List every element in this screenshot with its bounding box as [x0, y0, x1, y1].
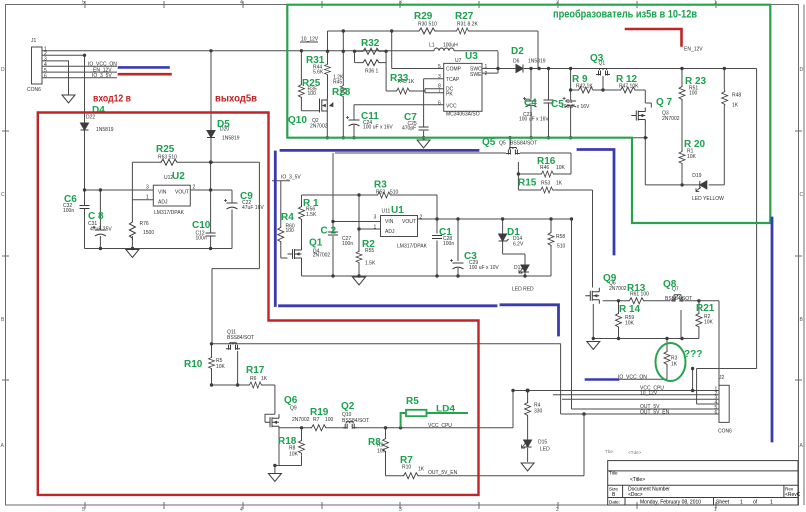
svg-text:PK: PK	[446, 92, 453, 98]
svg-text:2N7002: 2N7002	[313, 253, 331, 259]
svg-text:SWE: SWE	[470, 72, 482, 78]
svg-text:R25: R25	[156, 144, 175, 155]
svg-text:Q6: Q6	[284, 395, 298, 406]
svg-text:U7: U7	[455, 58, 462, 64]
svg-text:2N7002: 2N7002	[609, 286, 627, 292]
svg-text:1N5819: 1N5819	[96, 127, 114, 133]
svg-text:R17: R17	[246, 365, 265, 376]
svg-text:100uF x 16V: 100uF x 16V	[561, 104, 590, 110]
svg-text:1: 1	[770, 500, 773, 506]
svg-text:1: 1	[146, 195, 149, 201]
svg-text:R2: R2	[362, 239, 375, 250]
svg-text:J2: J2	[719, 375, 725, 381]
svg-text:R21: R21	[696, 303, 715, 314]
svg-text:100 uF x 16V: 100 uF x 16V	[363, 125, 393, 131]
svg-text:VOUT: VOUT	[175, 190, 189, 196]
svg-text:Q8: Q8	[663, 279, 677, 290]
svg-text:VIN: VIN	[158, 190, 167, 196]
svg-text:MC34063A/SO: MC34063A/SO	[446, 112, 480, 118]
svg-text:R5: R5	[406, 396, 419, 407]
svg-text:LM317/DPAK: LM317/DPAK	[154, 210, 185, 216]
svg-text:3: 3	[438, 74, 441, 80]
svg-text:1N5819: 1N5819	[528, 59, 546, 65]
svg-text:R36 1: R36 1	[365, 69, 379, 75]
svg-text:R16: R16	[537, 156, 556, 167]
svg-text:D15: D15	[538, 440, 547, 446]
svg-text:ADJ: ADJ	[385, 229, 395, 235]
svg-text:10K: 10K	[704, 320, 714, 326]
svg-text:R 23: R 23	[685, 76, 707, 87]
svg-text:10_12V: 10_12V	[640, 390, 658, 396]
svg-text:2: 2	[556, 507, 559, 512]
svg-text:Q10: Q10	[288, 115, 307, 126]
svg-text:Q1: Q1	[309, 238, 323, 249]
svg-text:Q 7: Q 7	[656, 97, 673, 108]
svg-text:J1: J1	[31, 38, 37, 44]
svg-text:5: 5	[438, 64, 441, 70]
svg-text:1: 1	[485, 64, 488, 70]
svg-text:LED YELLOW: LED YELLOW	[692, 196, 724, 202]
svg-text:C6: C6	[64, 194, 77, 205]
svg-text:470pF: 470pF	[402, 126, 416, 132]
svg-text:IO_3_5V: IO_3_5V	[92, 73, 112, 79]
svg-text:LD4: LD4	[436, 404, 455, 414]
svg-text:Q9: Q9	[603, 273, 617, 284]
svg-text:IO_3_5V: IO_3_5V	[281, 175, 301, 181]
svg-text:2N7002: 2N7002	[662, 116, 680, 122]
svg-text:Sheet: Sheet	[716, 500, 730, 506]
svg-text:COMP: COMP	[446, 67, 462, 73]
svg-text:2N7002: 2N7002	[310, 124, 328, 130]
svg-text:100uH: 100uH	[443, 43, 458, 49]
svg-text:C1: C1	[439, 227, 452, 238]
svg-text:R19: R19	[310, 407, 329, 418]
svg-text:R18: R18	[278, 436, 297, 447]
svg-text:R48: R48	[732, 93, 741, 99]
svg-text:Q2: Q2	[341, 401, 355, 412]
svg-text:D: D	[800, 67, 804, 73]
svg-text:C: C	[1, 192, 5, 198]
svg-text:5: 5	[82, 507, 85, 512]
svg-text:1.5K: 1.5K	[306, 212, 317, 218]
svg-text:C7: C7	[404, 112, 417, 123]
svg-text:10K: 10K	[556, 165, 566, 171]
svg-text:VIN: VIN	[385, 219, 394, 225]
svg-text:D6: D6	[513, 59, 520, 65]
svg-text:R 9: R 9	[572, 74, 588, 85]
svg-text:выход5в: выход5в	[215, 93, 257, 105]
svg-text:2: 2	[485, 71, 488, 77]
svg-text:6: 6	[44, 74, 47, 80]
svg-text:10_12V: 10_12V	[301, 37, 319, 43]
svg-text:R28: R28	[332, 87, 351, 98]
svg-text:R58: R58	[556, 234, 565, 240]
svg-text:R 12: R 12	[616, 74, 638, 85]
svg-text:вход12 в: вход12 в	[93, 93, 131, 105]
svg-text:1K: 1K	[261, 376, 268, 382]
svg-text:Size: Size	[609, 487, 618, 492]
svg-text:R5: R5	[216, 358, 223, 364]
svg-text:1K: 1K	[418, 467, 425, 473]
svg-text:5: 5	[82, 0, 85, 6]
svg-text:OUT_5V_EN: OUT_5V_EN	[428, 470, 458, 476]
svg-text:R33: R33	[390, 73, 409, 84]
svg-text:Monday, February 08, 2010: Monday, February 08, 2010	[640, 500, 701, 506]
svg-text:C 8: C 8	[88, 211, 104, 222]
svg-text:R76: R76	[140, 221, 149, 227]
svg-text:C9: C9	[240, 191, 253, 202]
svg-text:10K: 10K	[625, 321, 635, 327]
svg-text:10K: 10K	[377, 449, 387, 455]
svg-text:IO_VCC_ON: IO_VCC_ON	[618, 374, 647, 380]
svg-text:Q3: Q3	[590, 53, 604, 64]
svg-text:R30 510: R30 510	[418, 22, 437, 28]
svg-text:U11: U11	[382, 209, 391, 215]
svg-text:R13: R13	[627, 283, 646, 294]
svg-text:4: 4	[240, 0, 243, 6]
svg-text:LM317/DPAK: LM317/DPAK	[397, 244, 428, 250]
svg-text:6.2V: 6.2V	[513, 242, 524, 248]
svg-text:1K: 1K	[556, 181, 563, 187]
svg-text:100: 100	[308, 91, 317, 97]
svg-text:47uF 25V: 47uF 25V	[90, 227, 112, 233]
svg-text:R 1: R 1	[303, 198, 319, 209]
svg-text:CON6: CON6	[27, 87, 41, 93]
svg-text:TCAP: TCAP	[446, 77, 460, 83]
svg-text:преобразователь из5в в 10-12в: преобразователь из5в в 10-12в	[553, 9, 697, 21]
svg-text:1K: 1K	[671, 362, 678, 368]
svg-text:4: 4	[240, 507, 243, 512]
svg-text:<Title>: <Title>	[630, 477, 645, 483]
svg-text:OUT_5V_EN: OUT_5V_EN	[640, 409, 670, 415]
svg-text:L1: L1	[429, 43, 435, 49]
svg-text:510: 510	[390, 189, 399, 195]
svg-text:47uF 16V: 47uF 16V	[242, 205, 264, 211]
svg-text:100n: 100n	[63, 208, 74, 214]
svg-text:10K: 10K	[289, 452, 299, 458]
svg-text:R29: R29	[414, 11, 433, 22]
svg-text:R45: R45	[333, 80, 342, 86]
svg-text:C: C	[800, 192, 804, 198]
svg-text:of: of	[753, 500, 758, 506]
svg-text:Title: Title	[609, 471, 618, 476]
svg-text:R10: R10	[184, 359, 203, 370]
svg-text:<RevC: <RevC	[785, 492, 801, 498]
svg-text:3: 3	[374, 214, 377, 220]
svg-text:C10: C10	[192, 220, 211, 231]
svg-text:R 14: R 14	[619, 304, 641, 315]
svg-text:Tbe: Tbe	[605, 449, 613, 454]
svg-text:R31 8.2K: R31 8.2K	[457, 22, 479, 28]
svg-text:100: 100	[689, 91, 698, 97]
svg-text:1: 1	[740, 500, 743, 506]
svg-text:R25: R25	[302, 78, 321, 89]
svg-text:R53: R53	[541, 181, 550, 187]
svg-text:C4: C4	[524, 98, 537, 109]
svg-text:BSS84/SOT: BSS84/SOT	[510, 141, 537, 147]
svg-text:5.6K: 5.6K	[313, 70, 324, 76]
svg-text:6: 6	[715, 410, 718, 416]
svg-text:EN_12V: EN_12V	[684, 47, 703, 53]
svg-text:LED: LED	[540, 447, 550, 453]
svg-text:Date:: Date:	[609, 500, 620, 505]
svg-text:BSS84/SOT: BSS84/SOT	[342, 418, 369, 424]
svg-text:100n: 100n	[342, 241, 353, 247]
svg-text:R63 510: R63 510	[158, 155, 177, 161]
svg-text:510: 510	[557, 244, 566, 250]
svg-text:U2: U2	[172, 171, 185, 182]
svg-text:R 20: R 20	[684, 139, 706, 150]
svg-text:2: 2	[420, 214, 423, 220]
svg-text:R27: R27	[455, 11, 474, 22]
svg-text:C3: C3	[464, 251, 477, 262]
svg-text:3: 3	[146, 185, 149, 191]
svg-text:VOUT: VOUT	[402, 219, 416, 225]
svg-text:1500: 1500	[143, 230, 154, 236]
svg-text:100n: 100n	[443, 241, 454, 247]
svg-text:U3: U3	[465, 51, 478, 62]
svg-text:1: 1	[374, 224, 377, 230]
svg-text:D19: D19	[692, 173, 701, 179]
svg-text:R15: R15	[518, 178, 537, 189]
svg-text:VCC_CPU: VCC_CPU	[428, 423, 452, 429]
svg-text:Q9: Q9	[290, 406, 297, 412]
svg-text:3: 3	[399, 507, 402, 512]
svg-text:R7: R7	[400, 455, 413, 466]
svg-text:R6: R6	[250, 376, 257, 382]
svg-text:???: ???	[684, 349, 702, 360]
svg-text:C5: C5	[551, 99, 564, 110]
svg-text:BSS84/SOT: BSS84/SOT	[665, 296, 692, 302]
svg-text:1: 1	[714, 507, 717, 512]
svg-text:R3: R3	[374, 180, 387, 191]
svg-text:10K: 10K	[216, 364, 226, 370]
svg-text:BSS84/SOT: BSS84/SOT	[227, 335, 254, 341]
svg-text:D5: D5	[217, 119, 230, 130]
svg-text:C11: C11	[361, 111, 379, 122]
svg-text:D2: D2	[511, 46, 524, 57]
svg-text:330: 330	[534, 409, 543, 415]
svg-text:D13: D13	[514, 265, 523, 271]
svg-text:C 2: C 2	[321, 226, 337, 237]
svg-text:10K: 10K	[687, 154, 697, 160]
svg-text:Q5: Q5	[499, 141, 506, 147]
svg-text:100 uF x 10V: 100 uF x 10V	[469, 265, 499, 271]
svg-text:100n: 100n	[196, 236, 207, 242]
svg-text:R32: R32	[361, 38, 380, 49]
svg-text:D1: D1	[507, 227, 520, 238]
svg-text:CON6: CON6	[718, 429, 732, 435]
svg-text:R8: R8	[368, 437, 381, 448]
svg-text:6: 6	[438, 101, 441, 107]
svg-text:ADJ: ADJ	[158, 200, 168, 206]
svg-text:2N7002: 2N7002	[292, 417, 310, 423]
svg-text:<Doc>: <Doc>	[628, 492, 643, 498]
svg-text:LED RED: LED RED	[512, 287, 534, 293]
svg-text:D4: D4	[92, 105, 105, 116]
svg-text:100: 100	[286, 228, 295, 234]
svg-text:7: 7	[438, 88, 441, 94]
svg-text:VCC: VCC	[446, 104, 457, 110]
svg-text:1K: 1K	[732, 103, 739, 109]
svg-text:1N5819: 1N5819	[222, 136, 240, 142]
svg-text:R4: R4	[281, 212, 294, 223]
svg-text:Rev: Rev	[785, 487, 794, 492]
svg-text:2: 2	[193, 185, 196, 191]
svg-text:100 uF x 16V: 100 uF x 16V	[519, 117, 549, 123]
svg-text:1.5K: 1.5K	[365, 261, 376, 267]
svg-text:D: D	[1, 67, 5, 73]
svg-text:U1: U1	[391, 205, 404, 216]
svg-text:R31: R31	[306, 55, 325, 66]
svg-text:<Tde>: <Tde>	[628, 450, 642, 455]
